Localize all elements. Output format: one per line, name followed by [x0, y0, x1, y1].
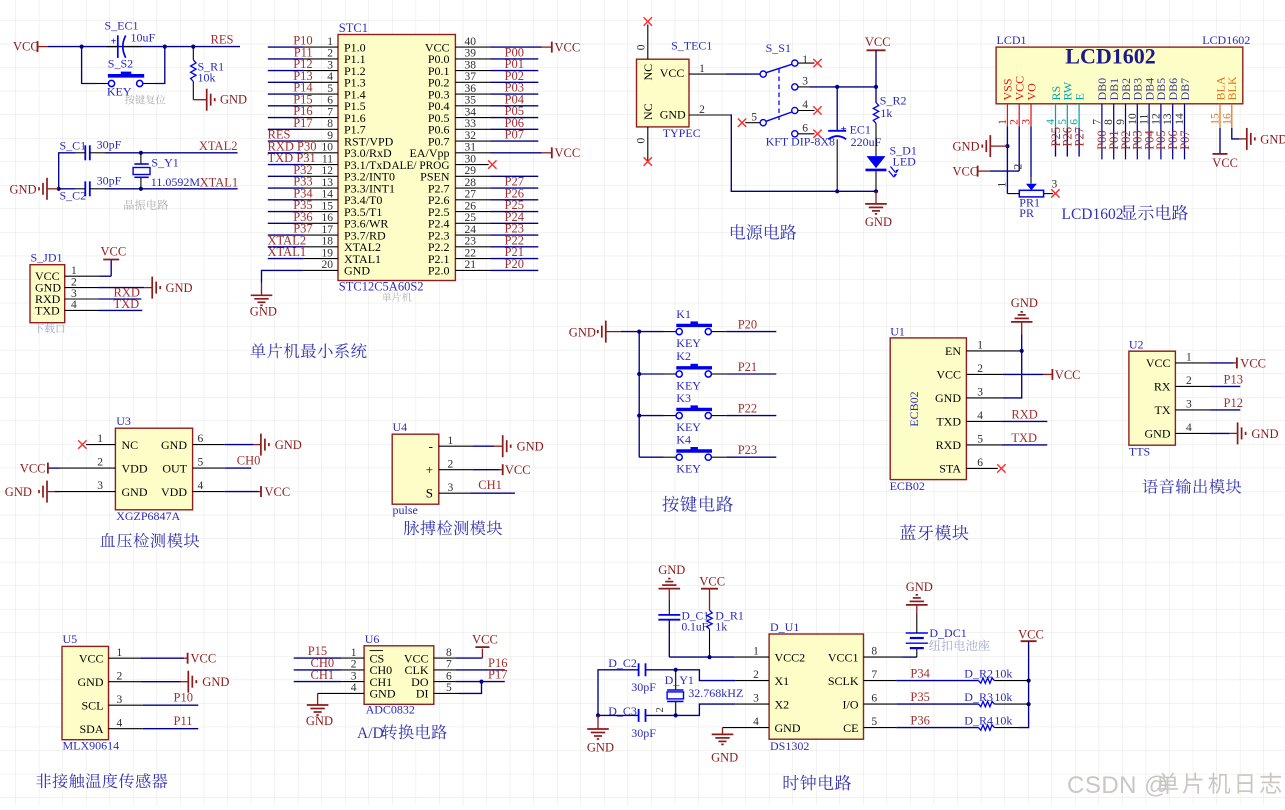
- svg-text:VCC2: VCC2: [775, 650, 806, 664]
- svg-text:4: 4: [198, 480, 204, 492]
- svg-text:4: 4: [351, 682, 357, 694]
- svg-text:S: S: [426, 485, 433, 500]
- svg-text:2: 2: [699, 104, 705, 116]
- svg-text:VDD: VDD: [161, 485, 187, 499]
- svg-text:3: 3: [448, 482, 454, 494]
- svg-text:9: 9: [327, 130, 333, 142]
- svg-text:STC1: STC1: [339, 21, 368, 35]
- svg-text:P07: P07: [1178, 130, 1192, 149]
- svg-text:GND: GND: [517, 440, 544, 454]
- svg-text:30pF: 30pF: [631, 680, 656, 694]
- svg-text:P20: P20: [505, 257, 524, 271]
- svg-text:GND: GND: [161, 438, 187, 452]
- svg-text:32.768kHZ: 32.768kHZ: [688, 686, 743, 700]
- svg-text:D_DC1: D_DC1: [929, 626, 966, 640]
- svg-text:TXD: TXD: [114, 297, 140, 311]
- svg-text:+: +: [111, 36, 117, 47]
- svg-text:EA/Vpp: EA/Vpp: [410, 146, 450, 160]
- svg-text:10k: 10k: [994, 690, 1012, 704]
- svg-text:P35: P35: [910, 690, 929, 704]
- svg-text:E: E: [1072, 93, 1086, 100]
- svg-text:6: 6: [327, 95, 333, 107]
- svg-text:7: 7: [327, 106, 333, 118]
- svg-text:STC12C5A60S2: STC12C5A60S2: [339, 280, 424, 294]
- svg-text:30pF: 30pF: [97, 174, 122, 188]
- svg-text:3: 3: [71, 288, 77, 300]
- svg-text:VO: VO: [1024, 83, 1038, 101]
- svg-text:D_C2: D_C2: [608, 656, 637, 670]
- svg-text:GND: GND: [569, 326, 596, 340]
- svg-text:RXD: RXD: [936, 438, 962, 452]
- svg-text:2: 2: [327, 48, 333, 60]
- svg-text:4: 4: [71, 299, 77, 311]
- svg-text:GND: GND: [1260, 132, 1285, 146]
- svg-text:P20: P20: [738, 318, 757, 332]
- svg-text:10k: 10k: [198, 71, 216, 85]
- svg-text:11.0592M: 11.0592M: [151, 175, 201, 189]
- svg-text:GND: GND: [660, 108, 686, 122]
- svg-text:-: -: [429, 438, 433, 453]
- svg-text:2: 2: [1013, 164, 1025, 170]
- svg-text:3: 3: [117, 694, 123, 706]
- svg-text:5: 5: [977, 434, 983, 446]
- svg-text:1: 1: [117, 647, 123, 659]
- svg-text:+: +: [426, 462, 433, 477]
- svg-text:VCC: VCC: [699, 575, 725, 589]
- svg-text:30: 30: [465, 153, 477, 165]
- svg-text:5: 5: [327, 83, 333, 95]
- svg-text:P2.0: P2.0: [428, 264, 450, 278]
- svg-text:S_C1: S_C1: [60, 139, 87, 153]
- svg-text:LCD1602: LCD1602: [1202, 33, 1250, 47]
- svg-text:5: 5: [446, 682, 452, 694]
- svg-text:6: 6: [198, 433, 204, 445]
- svg-text:1: 1: [977, 340, 983, 352]
- svg-text:VCC: VCC: [1240, 356, 1266, 370]
- svg-text:6: 6: [802, 123, 808, 135]
- svg-text:2: 2: [448, 458, 454, 470]
- svg-text:CE: CE: [843, 721, 858, 735]
- svg-text:ECB02: ECB02: [890, 479, 925, 493]
- svg-text:VCC: VCC: [191, 652, 217, 666]
- svg-text:U4: U4: [393, 420, 408, 434]
- svg-text:GND: GND: [78, 675, 104, 689]
- svg-text:2: 2: [117, 670, 123, 682]
- svg-text:2: 2: [753, 669, 759, 681]
- svg-text:GND: GND: [865, 215, 892, 229]
- svg-text:KEY: KEY: [676, 336, 701, 350]
- svg-text:7: 7: [446, 659, 452, 671]
- svg-text:25: 25: [465, 212, 477, 224]
- svg-text:VCC: VCC: [1018, 628, 1044, 642]
- svg-text:1: 1: [997, 182, 1009, 188]
- svg-text:4: 4: [753, 716, 759, 728]
- svg-text:P21: P21: [738, 360, 757, 374]
- svg-text:VCC: VCC: [1146, 356, 1171, 370]
- svg-text:S_TEC1: S_TEC1: [671, 39, 712, 53]
- svg-text:TXD: TXD: [936, 415, 961, 429]
- svg-text:S_JD1: S_JD1: [31, 251, 63, 265]
- svg-text:P23: P23: [738, 443, 757, 457]
- svg-text:VCC: VCC: [265, 485, 291, 499]
- svg-text:GND: GND: [587, 741, 614, 755]
- svg-text:P36: P36: [910, 714, 929, 728]
- svg-text:K2: K2: [676, 349, 691, 363]
- svg-text:8: 8: [871, 646, 877, 658]
- svg-text:28: 28: [465, 177, 477, 189]
- svg-text:P27: P27: [1072, 127, 1086, 146]
- svg-text:NC: NC: [641, 64, 655, 81]
- svg-text:GND: GND: [10, 182, 37, 196]
- svg-text:30pF: 30pF: [97, 137, 122, 151]
- svg-text:26: 26: [465, 200, 477, 212]
- svg-text:33: 33: [465, 118, 477, 130]
- svg-text:0.1uF: 0.1uF: [682, 621, 709, 633]
- svg-text:GND: GND: [1145, 427, 1171, 441]
- svg-text:MLX90614: MLX90614: [63, 738, 120, 752]
- svg-text:RXD: RXD: [1011, 407, 1037, 421]
- svg-text:GND: GND: [370, 687, 396, 701]
- svg-text:6: 6: [977, 457, 983, 469]
- svg-text:TTS: TTS: [1129, 445, 1150, 459]
- svg-text:U5: U5: [63, 632, 78, 646]
- svg-text:10k: 10k: [994, 714, 1012, 728]
- svg-text:7: 7: [871, 669, 877, 681]
- svg-text:4: 4: [977, 410, 983, 422]
- svg-text:D_R4: D_R4: [964, 714, 993, 728]
- svg-text:DI: DI: [416, 687, 429, 701]
- svg-text:LED: LED: [893, 155, 917, 169]
- svg-text:3: 3: [977, 387, 983, 399]
- svg-text:NC: NC: [641, 103, 655, 120]
- svg-text:VDD: VDD: [122, 461, 148, 475]
- svg-text:2: 2: [977, 363, 983, 375]
- svg-text:1: 1: [351, 647, 357, 659]
- svg-text:16: 16: [322, 212, 334, 224]
- svg-text:P10: P10: [174, 691, 193, 705]
- svg-text:RX: RX: [1154, 380, 1171, 394]
- svg-text:TXD: TXD: [1011, 431, 1037, 445]
- svg-text:EN: EN: [945, 344, 961, 358]
- svg-text:CH0: CH0: [237, 454, 261, 468]
- svg-text:KEY: KEY: [676, 462, 701, 476]
- svg-text:5: 5: [751, 112, 757, 124]
- svg-text:CH1: CH1: [311, 668, 335, 682]
- svg-text:GND: GND: [250, 305, 277, 319]
- svg-text:P11: P11: [174, 714, 193, 728]
- svg-text:GND: GND: [202, 675, 229, 689]
- svg-text:VCC1: VCC1: [828, 650, 859, 664]
- svg-text:S_S1: S_S1: [766, 41, 791, 55]
- svg-text:VCC: VCC: [953, 165, 979, 179]
- svg-text:GND: GND: [306, 714, 333, 728]
- svg-text:VCC: VCC: [555, 41, 581, 55]
- svg-text:ECB02: ECB02: [907, 391, 921, 426]
- svg-text:VCC: VCC: [1055, 368, 1081, 382]
- svg-text:P13: P13: [1224, 372, 1243, 386]
- svg-text:LCD1602: LCD1602: [1065, 44, 1155, 69]
- svg-text:STA: STA: [939, 462, 961, 476]
- svg-text:GND: GND: [344, 264, 370, 278]
- svg-text:1: 1: [97, 433, 103, 445]
- svg-text:LCD1: LCD1: [997, 33, 1027, 47]
- svg-text:2: 2: [1186, 375, 1192, 387]
- svg-text:U1: U1: [890, 324, 905, 338]
- svg-text:S_Y1: S_Y1: [151, 156, 178, 170]
- svg-text:20: 20: [322, 259, 334, 271]
- svg-text:P34: P34: [910, 667, 930, 681]
- svg-text:D_U1: D_U1: [770, 620, 799, 634]
- svg-text:2: 2: [97, 457, 103, 469]
- svg-text:2: 2: [655, 707, 666, 712]
- svg-text:DS1302: DS1302: [770, 739, 809, 753]
- svg-text:XTAL1: XTAL1: [268, 245, 307, 259]
- svg-text:XTAL1: XTAL1: [200, 176, 239, 190]
- svg-text:VCC: VCC: [936, 368, 961, 382]
- svg-text:14: 14: [322, 189, 334, 201]
- svg-text:U6: U6: [365, 632, 380, 646]
- svg-text:8: 8: [446, 647, 452, 659]
- svg-text:SDA: SDA: [79, 722, 103, 736]
- svg-text:K1: K1: [676, 307, 691, 321]
- svg-text:40: 40: [465, 36, 477, 48]
- svg-text:10uF: 10uF: [131, 31, 156, 45]
- svg-text:SCL: SCL: [81, 698, 103, 712]
- svg-text:12: 12: [322, 165, 334, 177]
- svg-text:2: 2: [351, 659, 357, 671]
- svg-text:P17: P17: [293, 116, 312, 130]
- svg-text:1: 1: [802, 54, 808, 66]
- svg-text:D_Y1: D_Y1: [665, 673, 694, 687]
- svg-text:GND: GND: [122, 485, 148, 499]
- svg-text:TYPEC: TYPEC: [663, 126, 701, 140]
- svg-text:CSDN @: CSDN @: [1067, 772, 1169, 799]
- svg-text:CH1: CH1: [478, 478, 502, 492]
- svg-text:TXD: TXD: [35, 303, 60, 317]
- svg-text:OUT: OUT: [162, 461, 187, 475]
- svg-text:8: 8: [327, 118, 333, 130]
- svg-text:K3: K3: [676, 391, 691, 405]
- svg-text:GND: GND: [166, 281, 193, 295]
- svg-text:31: 31: [465, 142, 477, 154]
- svg-text:4: 4: [802, 99, 808, 111]
- svg-text:pulse: pulse: [393, 503, 418, 517]
- svg-text:21: 21: [465, 259, 477, 271]
- svg-text:XTAL2: XTAL2: [199, 139, 238, 153]
- svg-text:35: 35: [465, 95, 477, 107]
- svg-text:NC: NC: [122, 438, 139, 452]
- svg-text:X1: X1: [775, 674, 790, 688]
- svg-text:GND: GND: [1251, 427, 1278, 441]
- svg-text:5: 5: [198, 457, 204, 469]
- svg-text:PR: PR: [1019, 206, 1034, 220]
- svg-text:6: 6: [871, 693, 877, 705]
- svg-text:2: 2: [71, 276, 77, 288]
- svg-text:29: 29: [465, 165, 477, 177]
- svg-text:S_C2: S_C2: [60, 188, 87, 202]
- svg-text:GND: GND: [658, 563, 685, 577]
- svg-text:VCC: VCC: [13, 40, 39, 54]
- svg-text:1k: 1k: [715, 619, 727, 633]
- svg-text:X2: X2: [775, 697, 790, 711]
- svg-text:15: 15: [322, 200, 334, 212]
- svg-text:220uF: 220uF: [851, 135, 882, 149]
- svg-text:GND: GND: [935, 391, 961, 405]
- svg-text:30pF: 30pF: [631, 726, 656, 740]
- svg-text:1k: 1k: [880, 106, 892, 120]
- svg-text:11: 11: [322, 153, 333, 165]
- svg-text:D_R3: D_R3: [964, 690, 993, 704]
- svg-text:17: 17: [322, 224, 334, 236]
- svg-text:A/D: A/D: [357, 725, 384, 742]
- svg-text:3: 3: [1186, 399, 1192, 411]
- svg-text:37: 37: [465, 71, 477, 83]
- svg-text:3: 3: [802, 76, 808, 88]
- svg-text:GND: GND: [953, 139, 980, 153]
- svg-text:U3: U3: [116, 414, 131, 428]
- svg-text:GND: GND: [711, 751, 738, 765]
- svg-text:0: 0: [636, 44, 648, 50]
- svg-text:GND: GND: [220, 93, 247, 107]
- svg-text:4: 4: [327, 71, 333, 83]
- svg-text:VCC: VCC: [555, 146, 581, 160]
- svg-text:GND: GND: [275, 438, 302, 452]
- svg-text:P17: P17: [488, 668, 507, 682]
- svg-text:+: +: [841, 123, 847, 135]
- svg-text:S_S2: S_S2: [108, 57, 133, 71]
- svg-text:1: 1: [71, 265, 77, 277]
- svg-text:GND: GND: [1011, 296, 1038, 310]
- svg-text:U2: U2: [1129, 338, 1144, 352]
- svg-text:38: 38: [465, 59, 477, 71]
- svg-text:VCC: VCC: [660, 66, 685, 80]
- svg-text:P22: P22: [738, 402, 757, 416]
- svg-text:0: 0: [636, 138, 648, 144]
- svg-text:10: 10: [322, 142, 334, 154]
- svg-text:K4: K4: [676, 432, 691, 446]
- svg-text:22: 22: [465, 247, 477, 259]
- svg-text:VCC: VCC: [865, 35, 891, 49]
- svg-text:GND: GND: [5, 485, 32, 499]
- svg-text:1: 1: [699, 63, 705, 75]
- svg-text:18: 18: [322, 236, 334, 248]
- svg-text:ADC0832: ADC0832: [366, 703, 415, 717]
- svg-text:GND: GND: [906, 580, 933, 594]
- svg-text:P12: P12: [1224, 396, 1243, 410]
- svg-text:6: 6: [446, 670, 452, 682]
- svg-text:23: 23: [465, 236, 477, 248]
- svg-text:4: 4: [1186, 422, 1192, 434]
- svg-text:VCC: VCC: [79, 651, 104, 665]
- svg-text:1: 1: [448, 435, 454, 447]
- svg-text:RES: RES: [211, 33, 234, 47]
- svg-text:34: 34: [465, 106, 477, 118]
- svg-text:4: 4: [117, 717, 123, 729]
- svg-text:3: 3: [97, 480, 103, 492]
- svg-text:I/O: I/O: [843, 697, 859, 711]
- svg-text:KFT DIP-8X8: KFT DIP-8X8: [766, 135, 835, 149]
- svg-text:3: 3: [1052, 179, 1058, 191]
- svg-text:27: 27: [465, 189, 477, 201]
- svg-text:TX: TX: [1155, 403, 1171, 417]
- svg-text:KEY: KEY: [107, 85, 132, 99]
- svg-text:VCC: VCC: [472, 633, 498, 647]
- svg-text:GND: GND: [775, 721, 801, 735]
- svg-text:1: 1: [327, 36, 333, 48]
- svg-text:1: 1: [753, 646, 759, 658]
- svg-text:DB7: DB7: [1178, 78, 1192, 101]
- svg-text:3: 3: [753, 693, 759, 705]
- svg-text:LCD1602: LCD1602: [1062, 206, 1124, 223]
- svg-text:24: 24: [465, 224, 477, 236]
- svg-text:1: 1: [1186, 352, 1192, 364]
- svg-text:10k: 10k: [994, 667, 1012, 681]
- svg-text:32: 32: [465, 130, 477, 142]
- svg-text:3: 3: [351, 670, 357, 682]
- svg-text:VCC: VCC: [505, 463, 531, 477]
- svg-text:VCC: VCC: [20, 462, 46, 476]
- svg-text:SCLK: SCLK: [828, 674, 859, 688]
- svg-text:36: 36: [465, 83, 477, 95]
- svg-text:19: 19: [322, 247, 334, 259]
- svg-text:13: 13: [322, 177, 334, 189]
- svg-text:XGZP6847A: XGZP6847A: [116, 509, 180, 523]
- svg-text:P07: P07: [505, 128, 524, 142]
- svg-text:3: 3: [327, 59, 333, 71]
- svg-text:5: 5: [871, 716, 877, 728]
- svg-text:VCC: VCC: [101, 245, 127, 259]
- svg-text:VCC: VCC: [1212, 156, 1238, 170]
- svg-text:39: 39: [465, 48, 477, 60]
- svg-text:D_R2: D_R2: [964, 667, 993, 681]
- svg-text:BLK: BLK: [1225, 76, 1239, 100]
